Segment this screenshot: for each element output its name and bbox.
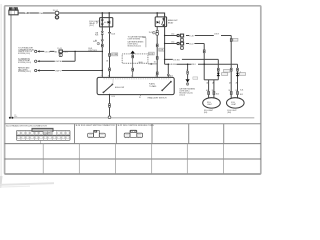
svg-text:B-30: B-30 bbox=[216, 94, 219, 96]
link illum to coil wire bbox=[148, 63, 157, 64]
fuse F2 bbox=[59, 50, 62, 57]
label DRL module bbox=[179, 87, 195, 96]
headlight switch SW1 bbox=[97, 77, 174, 94]
wire label box bbox=[112, 53, 118, 56]
label fog light RH bbox=[227, 110, 236, 114]
label block row2 bbox=[18, 57, 31, 64]
svg-text:F.08: F.08 bbox=[95, 34, 98, 36]
wire battery to ground bbox=[10, 15, 12, 117]
wire DRL stub bbox=[143, 38, 146, 48]
wire relay K1 coil output bbox=[101, 27, 103, 77]
svg-text:22: 22 bbox=[186, 70, 188, 72]
svg-text:B 16: B 16 bbox=[112, 96, 115, 98]
off-page arrow up bbox=[130, 51, 135, 56]
junction bbox=[74, 51, 75, 52]
svg-text:R/B 1: R/B 1 bbox=[192, 64, 196, 66]
diode D1 bbox=[217, 73, 220, 76]
svg-text:1D: 1D bbox=[212, 90, 214, 92]
svg-text:18: 18 bbox=[106, 61, 108, 63]
wire K2 output bus bbox=[164, 17, 166, 64]
junction bbox=[164, 43, 165, 44]
svg-text:1D: 1D bbox=[235, 90, 237, 92]
svg-text:B-22 DRL CONTROL MODULE CONN: B-22 DRL CONTROL MODULE CONN bbox=[118, 125, 154, 127]
junction on switch bottom bbox=[109, 94, 111, 96]
wire fog LH pin1 bbox=[208, 80, 210, 99]
svg-text:15-30: 15-30 bbox=[189, 35, 193, 37]
fog light RH bbox=[227, 98, 245, 108]
wire label box bbox=[239, 73, 245, 76]
svg-text:L/W/F 1: L/W/F 1 bbox=[55, 70, 61, 72]
wire row1 bbox=[40, 50, 103, 52]
svg-text:0.85 R/G: 0.85 R/G bbox=[173, 59, 180, 61]
wire row2 bbox=[40, 60, 76, 62]
svg-text:15-6: 15-6 bbox=[171, 33, 174, 35]
battery bbox=[9, 8, 18, 15]
svg-text:LIGHT: LIGHT bbox=[207, 104, 212, 106]
svg-text:(15-10): (15-10) bbox=[179, 94, 185, 96]
arrow to DRL module bbox=[186, 79, 190, 82]
wire W2 bbox=[165, 58, 219, 60]
switch pin labels bbox=[101, 74, 174, 77]
wire fog LH pin2 bbox=[213, 80, 215, 99]
connector C2 bbox=[35, 60, 40, 62]
svg-text:TO-PASS: TO-PASS bbox=[149, 85, 157, 88]
wire B+ bus bbox=[18, 12, 165, 14]
label to DRL bbox=[128, 35, 147, 40]
switch lever right bbox=[162, 81, 172, 91]
connector pair bbox=[132, 55, 134, 63]
ground bus wire bbox=[9, 117, 254, 119]
wire label box bbox=[159, 48, 165, 51]
svg-text:(15-7): (15-7) bbox=[89, 25, 94, 27]
label flash-to-pass bbox=[149, 83, 157, 88]
fuse F4 bbox=[180, 34, 183, 42]
connector C1 bbox=[35, 50, 40, 52]
svg-text:15-13: 15-13 bbox=[57, 48, 61, 50]
svg-text:HEADLIGHT SWITCH: HEADLIGHT SWITCH bbox=[148, 97, 167, 100]
svg-text:SYSTEM (15-10): SYSTEM (15-10) bbox=[18, 62, 31, 64]
link bar bbox=[104, 78, 171, 80]
wire diode LH bbox=[217, 59, 219, 79]
wire row3 bbox=[40, 70, 103, 72]
connector J2 face bbox=[88, 130, 106, 138]
connector strip border bbox=[5, 124, 261, 144]
bottom table grid bbox=[5, 144, 261, 174]
svg-text:RELAY: RELAY bbox=[168, 21, 174, 24]
junction bbox=[164, 59, 165, 60]
inline connector circle bbox=[177, 34, 179, 36]
svg-text:15-10: 15-10 bbox=[189, 43, 193, 45]
diode D2 bbox=[236, 73, 239, 76]
wire C down (from WB) bbox=[203, 44, 205, 80]
label joint box bbox=[88, 48, 98, 52]
wire label box bbox=[149, 52, 155, 55]
wire label box bbox=[233, 38, 238, 41]
svg-text:B-31: B-31 bbox=[240, 94, 243, 96]
svg-text:B-01: B-01 bbox=[93, 41, 97, 43]
svg-text:16: 16 bbox=[139, 97, 141, 99]
wire label box bbox=[222, 73, 228, 76]
svg-text:15-6: 15-6 bbox=[171, 41, 174, 43]
svg-text:SYSTEM (15-9): SYSTEM (15-9) bbox=[18, 53, 30, 55]
wire illum to switch bbox=[132, 63, 134, 77]
wire fog RH pin2 bbox=[237, 64, 239, 98]
fog light relay K1 bbox=[100, 13, 113, 27]
label DRL module ref bbox=[128, 40, 144, 47]
junction bbox=[164, 35, 165, 36]
wire label box bbox=[224, 69, 230, 72]
wire riser row2 to row1 bbox=[74, 51, 76, 61]
label block row3 bbox=[18, 67, 31, 74]
connector J1 face bbox=[17, 128, 71, 140]
wire K2 coil output bbox=[156, 27, 159, 78]
wire relay K1 switch output bbox=[109, 27, 111, 77]
fuse F1 bbox=[55, 12, 58, 19]
label headlight relay bbox=[168, 19, 178, 24]
junction bbox=[156, 12, 158, 14]
svg-text:B-31: B-31 bbox=[240, 90, 243, 92]
svg-text:0.3 RB: 0.3 RB bbox=[112, 54, 117, 56]
svg-text:SYSTEM (15-12): SYSTEM (15-12) bbox=[18, 71, 31, 73]
page frame (decorative) bbox=[5, 6, 261, 174]
svg-text:L/W/CH: L/W/CH bbox=[55, 61, 62, 63]
junction bbox=[101, 12, 103, 14]
wire fog RH pin1 bbox=[230, 36, 232, 99]
svg-text:A/L: A/L bbox=[55, 50, 58, 53]
svg-text:0.3 L/R: 0.3 L/R bbox=[45, 51, 51, 53]
inline connector circle bbox=[177, 42, 179, 44]
svg-text:18: 18 bbox=[108, 76, 110, 78]
junction bbox=[168, 63, 169, 64]
junction bbox=[108, 12, 110, 14]
wire switch to ground bbox=[109, 95, 111, 116]
wire manifold bbox=[204, 79, 218, 81]
connector J3 face bbox=[124, 130, 142, 138]
junction bbox=[102, 51, 104, 53]
switch lever left bbox=[103, 84, 113, 93]
ground point G bbox=[9, 115, 17, 119]
illumination module (dashed) bbox=[122, 54, 148, 63]
svg-text:(RH): (RH) bbox=[227, 112, 231, 114]
pin labels fog LH bbox=[206, 82, 214, 92]
svg-text:15-14: 15-14 bbox=[53, 10, 59, 12]
label B+ bbox=[24, 12, 43, 15]
wire W1 to fog RH feed bbox=[165, 35, 232, 37]
wire WB bbox=[165, 43, 205, 45]
in-line connector circle bbox=[108, 116, 111, 119]
svg-text:B-01 HEADLIGHT RH (LH) CONNECT: B-01 HEADLIGHT RH (LH) CONNECTOR bbox=[6, 125, 47, 128]
junction bbox=[204, 63, 205, 64]
svg-text:1B: 1B bbox=[229, 90, 231, 92]
svg-text:0.85 R/B: 0.85 R/B bbox=[170, 64, 176, 66]
svg-text:LIGHT: LIGHT bbox=[231, 104, 236, 106]
connector C3 bbox=[35, 69, 40, 71]
svg-text:16: 16 bbox=[154, 62, 156, 64]
headlight relay K2 bbox=[155, 13, 166, 27]
wire W3 bbox=[165, 63, 238, 65]
wire W3 to switch box bbox=[167, 64, 169, 77]
svg-text:B-05: B-05 bbox=[111, 33, 115, 35]
label fog light LH bbox=[204, 110, 213, 114]
svg-text:MODULE (15-10): MODULE (15-10) bbox=[128, 45, 142, 47]
svg-text:B-16 FOG LIGHT SWITCH CONNECTO: B-16 FOG LIGHT SWITCH CONNECTOR bbox=[76, 125, 115, 127]
fog light LH bbox=[203, 98, 221, 108]
junction bbox=[187, 63, 188, 64]
junction bbox=[102, 70, 103, 71]
svg-text:HIGH-LOW: HIGH-LOW bbox=[115, 87, 124, 89]
label fog light relay bbox=[89, 21, 100, 27]
label block row1 bbox=[18, 47, 35, 55]
svg-text:(LH): (LH) bbox=[204, 112, 208, 114]
wire DRL branch bbox=[187, 64, 189, 79]
fuse F5 bbox=[180, 42, 183, 50]
pin labels fog RH bbox=[229, 82, 238, 92]
svg-text:0.46 L: 0.46 L bbox=[64, 51, 69, 53]
svg-text:LIGHT SYSTEM: LIGHT SYSTEM bbox=[128, 38, 141, 40]
